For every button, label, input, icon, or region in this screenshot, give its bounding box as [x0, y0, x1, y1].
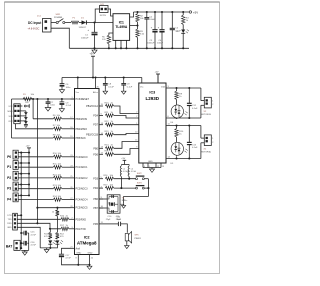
- svg-text:13: 13: [162, 166, 164, 168]
- svg-text:22pF: 22pF: [106, 219, 111, 221]
- svg-text:+5V: +5V: [26, 146, 30, 148]
- svg-text:19: 19: [70, 136, 72, 138]
- svg-text:SCK: SCK: [9, 116, 14, 118]
- svg-text:PB6: PB6: [93, 198, 98, 201]
- svg-text:ATMega8: ATMega8: [77, 241, 97, 246]
- svg-text:4.7uF: 4.7uF: [31, 234, 37, 236]
- svg-text:SW1: SW1: [56, 14, 62, 16]
- svg-text:PB1/OC1A: PB1/OC1A: [86, 105, 98, 108]
- svg-text:17: 17: [70, 117, 72, 119]
- svg-text:TXD: TXD: [8, 219, 13, 221]
- svg-text:1000uF: 1000uF: [147, 42, 155, 44]
- svg-text:RXD: RXD: [7, 223, 12, 225]
- svg-text:0.1uF: 0.1uF: [192, 108, 198, 110]
- svg-text:P3: P3: [7, 187, 11, 191]
- svg-text:P0: P0: [7, 155, 11, 159]
- svg-text:PD2: PD2: [93, 187, 98, 190]
- svg-text:2: 2: [212, 104, 213, 106]
- svg-text:GND: GND: [88, 252, 93, 254]
- svg-text:0.1uF: 0.1uF: [108, 86, 114, 88]
- svg-text:9: 9: [136, 147, 137, 149]
- svg-text:PIEZO: PIEZO: [135, 238, 142, 240]
- svg-text:IC1: IC1: [119, 21, 124, 25]
- svg-text:1000uF: 1000uF: [81, 37, 89, 39]
- svg-text:PC5/ADC5: PC5/ADC5: [76, 207, 89, 210]
- svg-text:DC Input: DC Input: [28, 21, 42, 25]
- svg-text:POWER: POWER: [54, 17, 63, 19]
- svg-text:SW3: SW3: [137, 182, 143, 184]
- svg-text:PC3/ADC3: PC3/ADC3: [76, 188, 89, 191]
- svg-text:TL499A: TL499A: [115, 25, 128, 29]
- svg-text:100n: 100n: [66, 87, 72, 89]
- svg-text:4.7uF: 4.7uF: [66, 105, 72, 107]
- svg-text:0.1uF: 0.1uF: [192, 147, 198, 149]
- svg-text:2: 2: [71, 218, 72, 220]
- svg-text:PD0/RXD: PD0/RXD: [76, 218, 87, 221]
- svg-text:L293D: L293D: [146, 96, 160, 101]
- svg-text:PC1/ADC1: PC1/ADC1: [76, 166, 89, 169]
- svg-text:P4: P4: [7, 198, 11, 202]
- svg-text:NC/5V: NC/5V: [100, 15, 107, 17]
- svg-text:28: 28: [70, 206, 72, 208]
- svg-text:PC4/ADC4: PC4/ADC4: [76, 199, 89, 202]
- svg-text:+5V: +5V: [121, 158, 125, 160]
- svg-text:PB2/OC1B: PB2/OC1B: [86, 134, 98, 137]
- svg-text:24: 24: [70, 165, 72, 167]
- svg-text:PD5: PD5: [93, 223, 98, 226]
- svg-text:7: 7: [136, 116, 137, 118]
- svg-text:GND: GND: [148, 161, 153, 163]
- svg-text:MOTOR A: MOTOR A: [201, 151, 212, 154]
- svg-text:4.7uF: 4.7uF: [31, 245, 37, 247]
- svg-text:PD1/TXD: PD1/TXD: [76, 228, 87, 231]
- svg-text:1N5817: 1N5817: [79, 27, 87, 29]
- svg-text:100uF: 100uF: [157, 42, 164, 44]
- svg-text:PB4/MISO: PB4/MISO: [76, 128, 88, 131]
- svg-text:PD6: PD6: [93, 153, 98, 156]
- svg-text:MISO: MISO: [7, 111, 13, 113]
- svg-text:25: 25: [70, 176, 72, 178]
- svg-text:8MHz: 8MHz: [122, 200, 128, 202]
- svg-text:P2: P2: [7, 176, 11, 180]
- svg-text:1: 1: [71, 97, 72, 99]
- svg-text:PD3: PD3: [93, 178, 98, 181]
- svg-text:1: 1: [212, 138, 213, 140]
- svg-text:SW2: SW2: [137, 173, 143, 175]
- svg-text:PC6/RESET: PC6/RESET: [76, 98, 90, 101]
- svg-text:PB5/SCK: PB5/SCK: [76, 137, 87, 140]
- svg-text:18: 18: [70, 127, 72, 129]
- svg-text:+4.8-6VDC: +4.8-6VDC: [28, 27, 40, 30]
- svg-text:10: 10: [135, 132, 137, 134]
- svg-text:23: 23: [70, 155, 72, 157]
- svg-text:4.7uH: 4.7uH: [131, 171, 137, 173]
- svg-text:4.7uH: 4.7uH: [123, 171, 129, 173]
- svg-text:+5V: +5V: [155, 72, 159, 74]
- svg-text:3: 3: [71, 227, 72, 229]
- svg-text:2: 2: [136, 112, 137, 114]
- svg-text:IC2: IC2: [84, 235, 90, 239]
- svg-text:10uF: 10uF: [117, 219, 122, 221]
- svg-text:5: 5: [149, 166, 150, 168]
- svg-text:RST: RST: [9, 121, 14, 123]
- svg-text:IC3: IC3: [149, 91, 155, 95]
- svg-text:VCC: VCC: [8, 106, 13, 108]
- svg-text:2: 2: [212, 142, 213, 144]
- svg-text:PD7: PD7: [93, 124, 98, 127]
- svg-text:100n: 100n: [50, 105, 56, 107]
- svg-text:PD4: PD4: [93, 115, 98, 118]
- svg-text:PB0: PB0: [93, 147, 98, 150]
- svg-text:15: 15: [135, 140, 137, 142]
- svg-text:GND: GND: [7, 227, 12, 229]
- svg-text:26: 26: [70, 187, 72, 189]
- svg-text:PB7: PB7: [93, 207, 98, 210]
- svg-text:+5V: +5V: [193, 10, 198, 14]
- svg-text:P1: P1: [7, 165, 11, 169]
- svg-text:1: 1: [212, 101, 213, 103]
- svg-text:MOTOR B: MOTOR B: [201, 114, 212, 116]
- svg-text:BAT: BAT: [6, 244, 12, 248]
- svg-text:4.7uF: 4.7uF: [65, 258, 71, 260]
- svg-text:21: 21: [70, 247, 72, 249]
- svg-text:Aref: Aref: [76, 247, 81, 250]
- svg-text:12: 12: [157, 166, 159, 168]
- svg-text:+5V: +5V: [90, 52, 95, 55]
- svg-text:PC2/ADC2: PC2/ADC2: [76, 177, 89, 180]
- svg-text:0.1uF: 0.1uF: [127, 86, 133, 88]
- svg-text:1: 1: [136, 123, 137, 125]
- svg-text:GND: GND: [76, 252, 81, 254]
- svg-text:PB3/MOSI: PB3/MOSI: [76, 118, 88, 121]
- svg-text:PC0/ADC0: PC0/ADC0: [76, 156, 89, 159]
- svg-text:27: 27: [70, 198, 72, 200]
- svg-text:DTR: DTR: [7, 215, 12, 217]
